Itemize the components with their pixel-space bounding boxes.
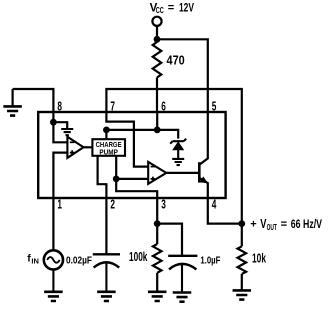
charge pump block [92, 139, 125, 156]
svg-text:CHARGE: CHARGE [96, 142, 122, 149]
op-amp plus sign [151, 177, 156, 182]
svg-text:470: 470 [167, 53, 185, 68]
junction VCC node [154, 36, 161, 43]
ground under fIN [52, 270, 54, 292]
svg-text:CC: CC [156, 6, 164, 15]
junction charge pump output [113, 176, 120, 183]
svg-text:IN: IN [31, 256, 39, 265]
ground under 10k [233, 290, 252, 299]
IC U1 LM2917 outline [38, 112, 225, 198]
capacitor C1 0.02uF plates [93, 252, 120, 255]
junction pin 8 node [50, 119, 57, 126]
zener diode D1 [170, 139, 186, 144]
wire pin 8 to comparator inverting input [53, 122, 67, 142]
wire charge pump bottom to pin 2 [98, 156, 107, 254]
svg-text:=: = [168, 2, 174, 14]
svg-text:3: 3 [161, 198, 166, 212]
op-amp minus sign [151, 166, 156, 168]
op-amp U1b [148, 162, 166, 184]
ground under 100k [148, 292, 167, 301]
junction pin 6 node [154, 126, 161, 133]
ground under C1 [97, 292, 116, 301]
wire pin 8 stub to junction [52, 112, 54, 122]
svg-text:12V: 12V [179, 2, 194, 14]
wire op-amp output to transistor base [166, 172, 199, 174]
svg-text:PUMP: PUMP [99, 150, 118, 157]
svg-text:4: 4 [212, 198, 217, 212]
wire pin 6 stub [156, 112, 158, 130]
wire charge pump top to supply rail [105, 130, 107, 139]
svg-text:+: + [250, 219, 256, 231]
svg-text:6: 6 [161, 99, 166, 113]
svg-text:10k: 10k [252, 252, 266, 266]
svg-text:66 Hz/V: 66 Hz/V [291, 217, 322, 231]
svg-text:5: 5 [212, 99, 217, 113]
Q1 collector [199, 112, 208, 165]
comparator minus sign [70, 141, 75, 143]
wire comparator output to charge pump [84, 146, 93, 148]
svg-text:=: = [281, 219, 287, 231]
junction VOUT node [238, 220, 245, 227]
resistor 100k [156, 224, 158, 244]
wire pin 3 node to capacitor C2 [157, 224, 182, 255]
label fIN [27, 253, 39, 266]
resistor 10k [241, 224, 243, 247]
svg-text:1: 1 [57, 198, 62, 212]
ground under C2 [173, 293, 192, 302]
wire pin 7 feedback to VOUT node [106, 89, 241, 224]
wire pin 1 to comparator non-inverting input [53, 153, 67, 251]
capacitor C2 1.0uF [168, 255, 197, 257]
svg-text:OUT: OUT [267, 222, 277, 232]
comparator plus sign [70, 150, 75, 155]
wire VCC terminal to junction [156, 26, 158, 39]
wire VCC junction to pin 5 / collector [157, 39, 208, 111]
op-amp U1a input comparator [67, 137, 83, 158]
wire pin 7 to op-amp inverting input [106, 112, 148, 167]
wire charge pump output [115, 156, 117, 179]
ground (top-left, pin 8) [12, 89, 14, 106]
wire ground to pin 8 [13, 89, 54, 112]
internal ground at zener [177, 150, 179, 159]
net label VCC = 12V [150, 2, 195, 15]
source fIN [44, 250, 63, 269]
transistor Q1 [198, 162, 201, 182]
svg-text:7: 7 [110, 99, 115, 113]
supply rail pin 6 to zener [106, 130, 178, 139]
junction charge pump supply [103, 126, 110, 133]
svg-text:0.02µF: 0.02µF [66, 255, 92, 266]
svg-text:8: 8 [57, 99, 62, 113]
net label VOUT [250, 217, 322, 232]
svg-text:100k: 100k [129, 250, 147, 264]
svg-text:1.0µF: 1.0µF [200, 256, 220, 267]
wire 470 to pin 6 [156, 78, 158, 113]
Q1 emitter with arrow [199, 178, 242, 224]
resistor 470 [153, 42, 162, 78]
wire pump output to pin 3 [116, 179, 157, 224]
VCC terminal [152, 17, 161, 26]
junction pin 3 node [154, 220, 161, 227]
svg-text:2: 2 [110, 198, 115, 212]
wire pump output to op-amp non-inverting input [116, 178, 148, 180]
internal ground at comparator [53, 122, 67, 129]
